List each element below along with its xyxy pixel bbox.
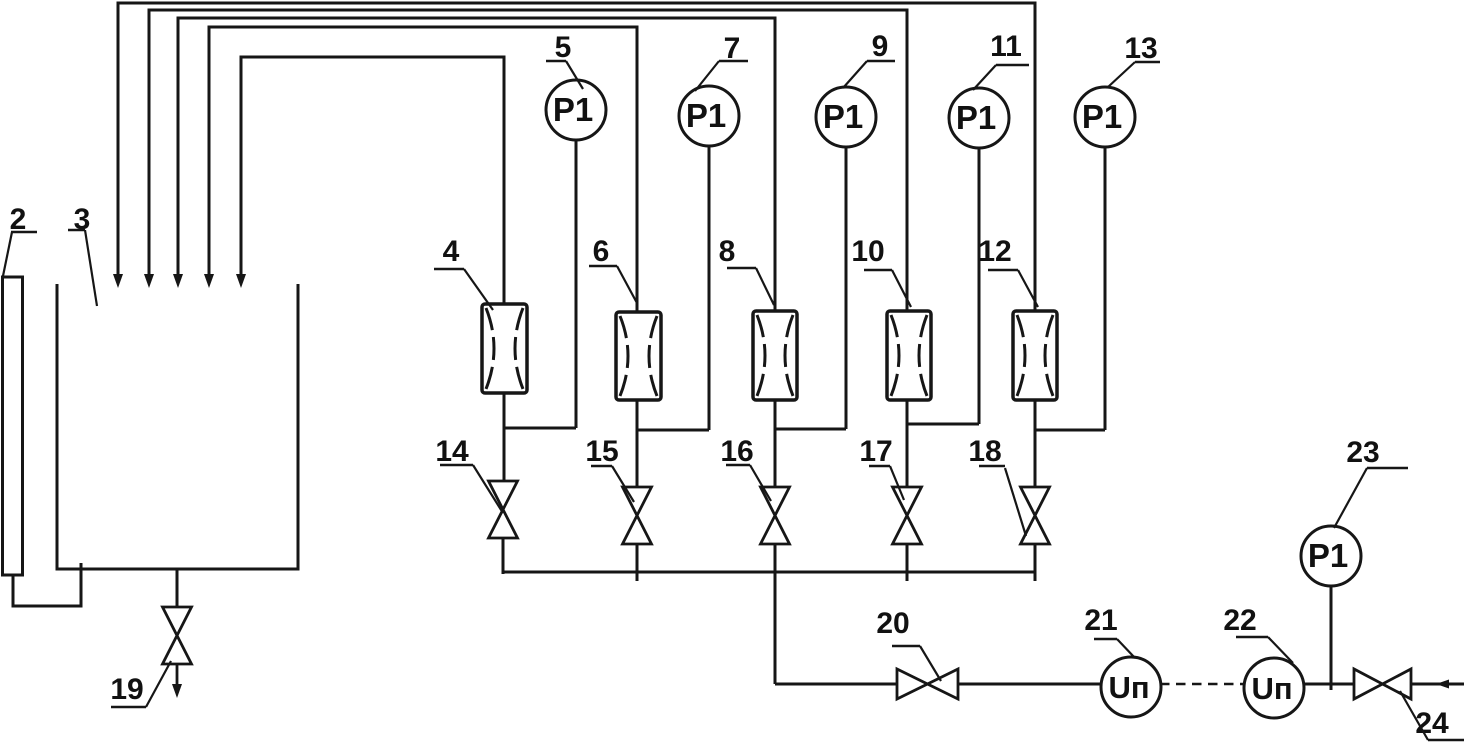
label 23 with leader: [1334, 436, 1408, 528]
svg-text:5: 5: [555, 31, 572, 64]
wire: valve 20 to flow transducer 21: [958, 683, 1102, 686]
wire: pressure tap from pipe below venturi 6 to gauge 7 line: [637, 429, 709, 432]
wire: venturi 8 outlet down to valve 16: [774, 400, 777, 487]
wire feed pipe 2 (tank outlet 5 to flowmeter 6): [204, 27, 637, 312]
wire: impulse line down from gauge 13: [1104, 147, 1107, 430]
label 14 with leader: [435, 435, 503, 513]
valve 20 (regulating valve): [897, 669, 958, 699]
svg-text:21: 21: [1084, 604, 1117, 637]
label 2 with leader: [3, 203, 37, 276]
pressure gauge P1 (11): [949, 88, 1009, 148]
valve 15: [623, 487, 652, 544]
label 21 with leader: [1084, 604, 1135, 658]
label 10 with leader: [851, 235, 911, 307]
flow nozzle / venturi tube 6: [616, 312, 661, 400]
flow nozzle / venturi tube 4: [482, 304, 527, 393]
flow transducer Uп (21): [1101, 657, 1161, 717]
svg-text:P1: P1: [1308, 537, 1348, 574]
svg-text:22: 22: [1223, 604, 1256, 637]
svg-text:P1: P1: [823, 98, 863, 135]
wire: venturi 10 outlet down to valve 17: [906, 400, 909, 487]
wire: tank drain down to valve 19: [176, 569, 179, 607]
valve 18: [1021, 487, 1050, 544]
svg-text:4: 4: [443, 235, 460, 268]
svg-text:P1: P1: [553, 91, 593, 128]
pressure gauge P1 (5): [546, 80, 606, 140]
valve 16: [761, 487, 790, 544]
svg-text:11: 11: [990, 30, 1022, 63]
flow nozzle / venturi tube 8: [753, 311, 797, 400]
svg-text:9: 9: [872, 30, 889, 63]
label 3 with leader: [68, 203, 97, 306]
pressure gauge P1 (9): [816, 87, 876, 147]
flow nozzle / venturi tube 10: [887, 311, 931, 400]
svg-text:Uп: Uп: [1108, 670, 1149, 705]
svg-text:13: 13: [1124, 32, 1157, 65]
flow transducer Uп (22): [1244, 658, 1304, 718]
svg-text:P1: P1: [686, 97, 726, 134]
wire: valve 14 outlet to manifold: [502, 538, 505, 574]
wire: valve 15 outlet through manifold: [636, 544, 639, 581]
wire: impulse line from gauge 23 down to discharge line: [1330, 586, 1333, 690]
wire: pressure tap from pipe below venturi 12 to gauge 13 line: [1035, 429, 1105, 432]
wire: collecting manifold: [503, 571, 1035, 574]
label 20 with leader: [876, 607, 941, 681]
label 17 with leader: [859, 435, 904, 500]
svg-text:20: 20: [876, 607, 909, 640]
wire: impulse line down from gauge 7: [708, 146, 711, 430]
svg-text:10: 10: [851, 235, 884, 268]
label 13 with leader: [1108, 32, 1160, 87]
label 4 with leader: [434, 235, 493, 310]
wire feed pipe 3 (tank outlet 4 to flowmeter 8): [173, 18, 775, 311]
wire: drain outlet arrow: [172, 664, 182, 698]
wire: venturi 4 outlet down to valve 14: [503, 393, 506, 481]
svg-text:Uп: Uп: [1251, 671, 1292, 706]
svg-text:12: 12: [978, 235, 1011, 268]
wire: valve 17 outlet through manifold: [906, 544, 909, 581]
wire: pressure tap from pipe below venturi 10 to gauge 11 line: [907, 423, 979, 426]
label 19 with leader: [110, 661, 171, 707]
wire: valve 16 outlet down to discharge line: [774, 544, 777, 684]
wire: valve 18 outlet through manifold: [1034, 544, 1037, 581]
svg-text:6: 6: [593, 235, 610, 268]
wire: discharge line to valve 20: [775, 683, 897, 686]
valve 14: [489, 481, 518, 538]
label 24 with leader: [1400, 691, 1464, 740]
wire: impulse line down from gauge 11: [978, 148, 981, 424]
wire: transducer 22 to valve 24: [1304, 683, 1354, 686]
wire: dashed link between transducers 21 and 22: [1160, 683, 1245, 686]
wire: pressure tap from pipe below venturi 4 to gauge 5 line: [504, 427, 576, 430]
label 6 with leader: [589, 235, 637, 303]
wire: pressure tap from pipe below venturi 8 to gauge 9 line: [775, 428, 846, 431]
wire feed pipe 4 (tank outlet 3 to flowmeter 10): [144, 10, 907, 311]
label 8 with leader: [719, 235, 774, 305]
svg-text:P1: P1: [956, 99, 996, 136]
svg-text:19: 19: [110, 673, 143, 706]
label 15 with leader: [585, 435, 634, 502]
wire: impulse line down from gauge 9: [845, 147, 848, 429]
label 11 with leader: [973, 30, 1029, 90]
valve 17: [893, 487, 922, 544]
label 22 with leader: [1223, 604, 1293, 663]
column / gauge tube 2: [3, 277, 23, 575]
wire: impulse line down from gauge 5: [575, 140, 578, 428]
label 5 with leader: [546, 31, 583, 89]
wire feed pipe 5 (tank outlet 2 to flowmeter 12): [113, 3, 1035, 311]
label 12 with leader: [978, 235, 1038, 307]
svg-text:17: 17: [859, 435, 892, 468]
wire feed pipe 1 (tank outlet 6 to flowmeter 4): [236, 57, 504, 304]
svg-text:14: 14: [435, 435, 469, 468]
label 18 with leader: [968, 435, 1026, 536]
pressure gauge P1 (13): [1075, 87, 1135, 147]
valve 24 (inlet valve): [1354, 669, 1411, 699]
label 7 with leader: [695, 32, 748, 91]
wire: inlet line with flow arrow: [1411, 680, 1464, 689]
pressure gauge P1 (23): [1301, 526, 1361, 586]
label 16 with leader: [720, 435, 771, 501]
wire: venturi 6 outlet down to valve 15: [636, 400, 639, 487]
svg-text:18: 18: [968, 435, 1001, 468]
svg-text:P1: P1: [1082, 98, 1122, 135]
svg-text:23: 23: [1346, 436, 1379, 469]
label 9 with leader: [843, 30, 895, 88]
tank 3 (open top vessel): [56, 284, 300, 570]
svg-text:8: 8: [719, 235, 736, 268]
wire: venturi 12 outlet down to valve 18: [1034, 400, 1037, 487]
svg-text:24: 24: [1415, 707, 1449, 740]
svg-text:16: 16: [720, 435, 753, 468]
svg-text:15: 15: [585, 435, 618, 468]
valve 19 (drain valve): [163, 607, 192, 664]
flow nozzle / venturi tube 12: [1013, 311, 1057, 400]
pressure gauge P1 (7): [679, 86, 739, 146]
wire: U-pipe from column 2 to tank bottom: [13, 563, 81, 606]
